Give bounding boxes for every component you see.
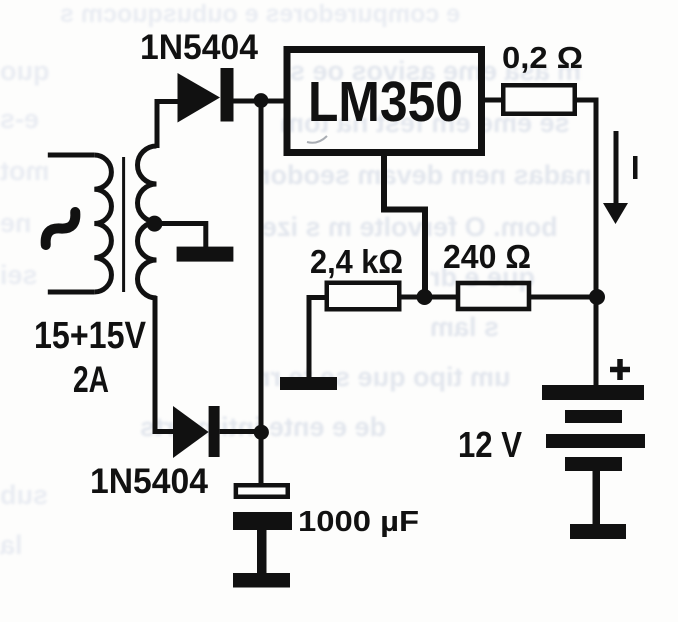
AC source symbol [41, 209, 81, 247]
label + [610, 359, 630, 380]
resistor R2 2,4 kohm [327, 283, 400, 310]
wire battery negative lead [593, 471, 601, 525]
faint bleed-through text from reverse page side [60, 0, 460, 29]
ground center tap [177, 247, 234, 262]
wire secondary bottom lead [155, 296, 178, 432]
wire D2 cathode to rail [220, 429, 261, 434]
label I [633, 156, 638, 179]
wire C1 negative lead [257, 530, 267, 574]
svg-text:2A: 2A [73, 359, 109, 400]
diode D1 1N5404 (top) [178, 68, 234, 123]
transformer T1 core [122, 157, 125, 292]
wire R3 right lead [531, 295, 596, 300]
wire secondary top lead [157, 102, 178, 149]
battery B1 12V [542, 385, 645, 471]
svg-text:0,2 Ω: 0,2 Ω [502, 40, 583, 75]
current arrow I [603, 131, 628, 224]
capacitor C1 top plate [236, 485, 288, 497]
svg-text:LM350: LM350 [308, 70, 463, 134]
capacitor C1 bottom plate [233, 512, 292, 530]
ground R2 [280, 377, 337, 390]
transformer T1 primary top lead [48, 153, 95, 158]
node D2 junction [254, 425, 269, 440]
wire R2 left lead to ground [309, 298, 325, 379]
resistor R1 0,2 ohm [503, 85, 575, 114]
diode D2 1N5404 (bottom) [173, 406, 220, 458]
wire right rail to battery [594, 297, 599, 386]
transformer T1 secondary winding [138, 146, 157, 298]
ground C1 [233, 573, 290, 588]
node output junction [589, 289, 605, 305]
svg-text:12 V: 12 V [458, 424, 522, 465]
wire LM350 adj lead [384, 156, 425, 292]
resistor R3 240 ohm [458, 283, 529, 309]
svg-text:240 Ω: 240 Ω [443, 238, 531, 275]
node adj junction [417, 289, 433, 305]
svg-text:1000 µF: 1000 µF [298, 506, 419, 538]
svg-text:1N5404: 1N5404 [90, 462, 209, 501]
wire main vertical rail [259, 101, 264, 484]
wire R1 to right rail [577, 100, 596, 297]
wire R2 to R3 [401, 295, 456, 300]
pencil mark inside LM350 [307, 136, 327, 143]
wire center tap to ground [154, 224, 206, 249]
wire LM350 output lead [485, 98, 503, 103]
wire D1 cathode to LM350 [234, 99, 288, 104]
svg-text:15+15V: 15+15V [34, 315, 147, 357]
transformer T1 primary bottom lead [48, 290, 95, 295]
svg-text:2,4 kΩ: 2,4 kΩ [310, 243, 403, 280]
node rectifier output junction [254, 93, 269, 108]
svg-text:1N5404: 1N5404 [140, 28, 259, 67]
ground battery [570, 524, 626, 539]
node center tap junction [147, 216, 163, 232]
transformer T1 primary winding [94, 155, 111, 292]
op-amp U1 LM350 regulator box [287, 50, 482, 153]
